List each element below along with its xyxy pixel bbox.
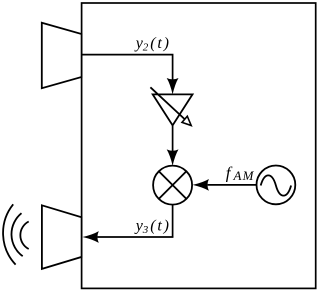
mixer X stroke 1 (159, 171, 187, 199)
arrowhead into mixer (167, 149, 179, 165)
wire oscillator to mixer (208, 184, 257, 186)
loudspeaker horn (42, 205, 82, 269)
wire amplifier to mixer (172, 125, 174, 151)
svg-text:y3(t): y3(t) (134, 217, 171, 235)
sound wave arc outer (3, 204, 16, 264)
oscillator sine wave (261, 175, 291, 195)
variable-gain arrow (diagonal line) (150, 87, 185, 119)
mixer (circle with X) (153, 166, 192, 205)
wire mixer down (172, 205, 174, 237)
arrowhead into amplifier (167, 78, 179, 94)
wire y2 (horizontal from mic, then down) (82, 55, 173, 80)
arrowhead into loudspeaker (83, 231, 99, 243)
sound wave arc middle (11, 213, 22, 256)
mixer X stroke 2 (159, 171, 187, 199)
svg-text:fAM: fAM (226, 164, 255, 183)
op-amp / variable amplifier triangle (153, 94, 193, 125)
arrowhead at mixer right input (193, 179, 209, 191)
microphone horn (42, 23, 82, 89)
wire y3 (horizontal to speaker) (98, 236, 174, 238)
svg-text:y2(t): y2(t) (134, 35, 171, 53)
sound wave arc inner (20, 222, 28, 250)
oscillator source circle (257, 166, 296, 205)
system boundary box (82, 3, 316, 288)
variable-gain arrow open head (182, 116, 191, 125)
